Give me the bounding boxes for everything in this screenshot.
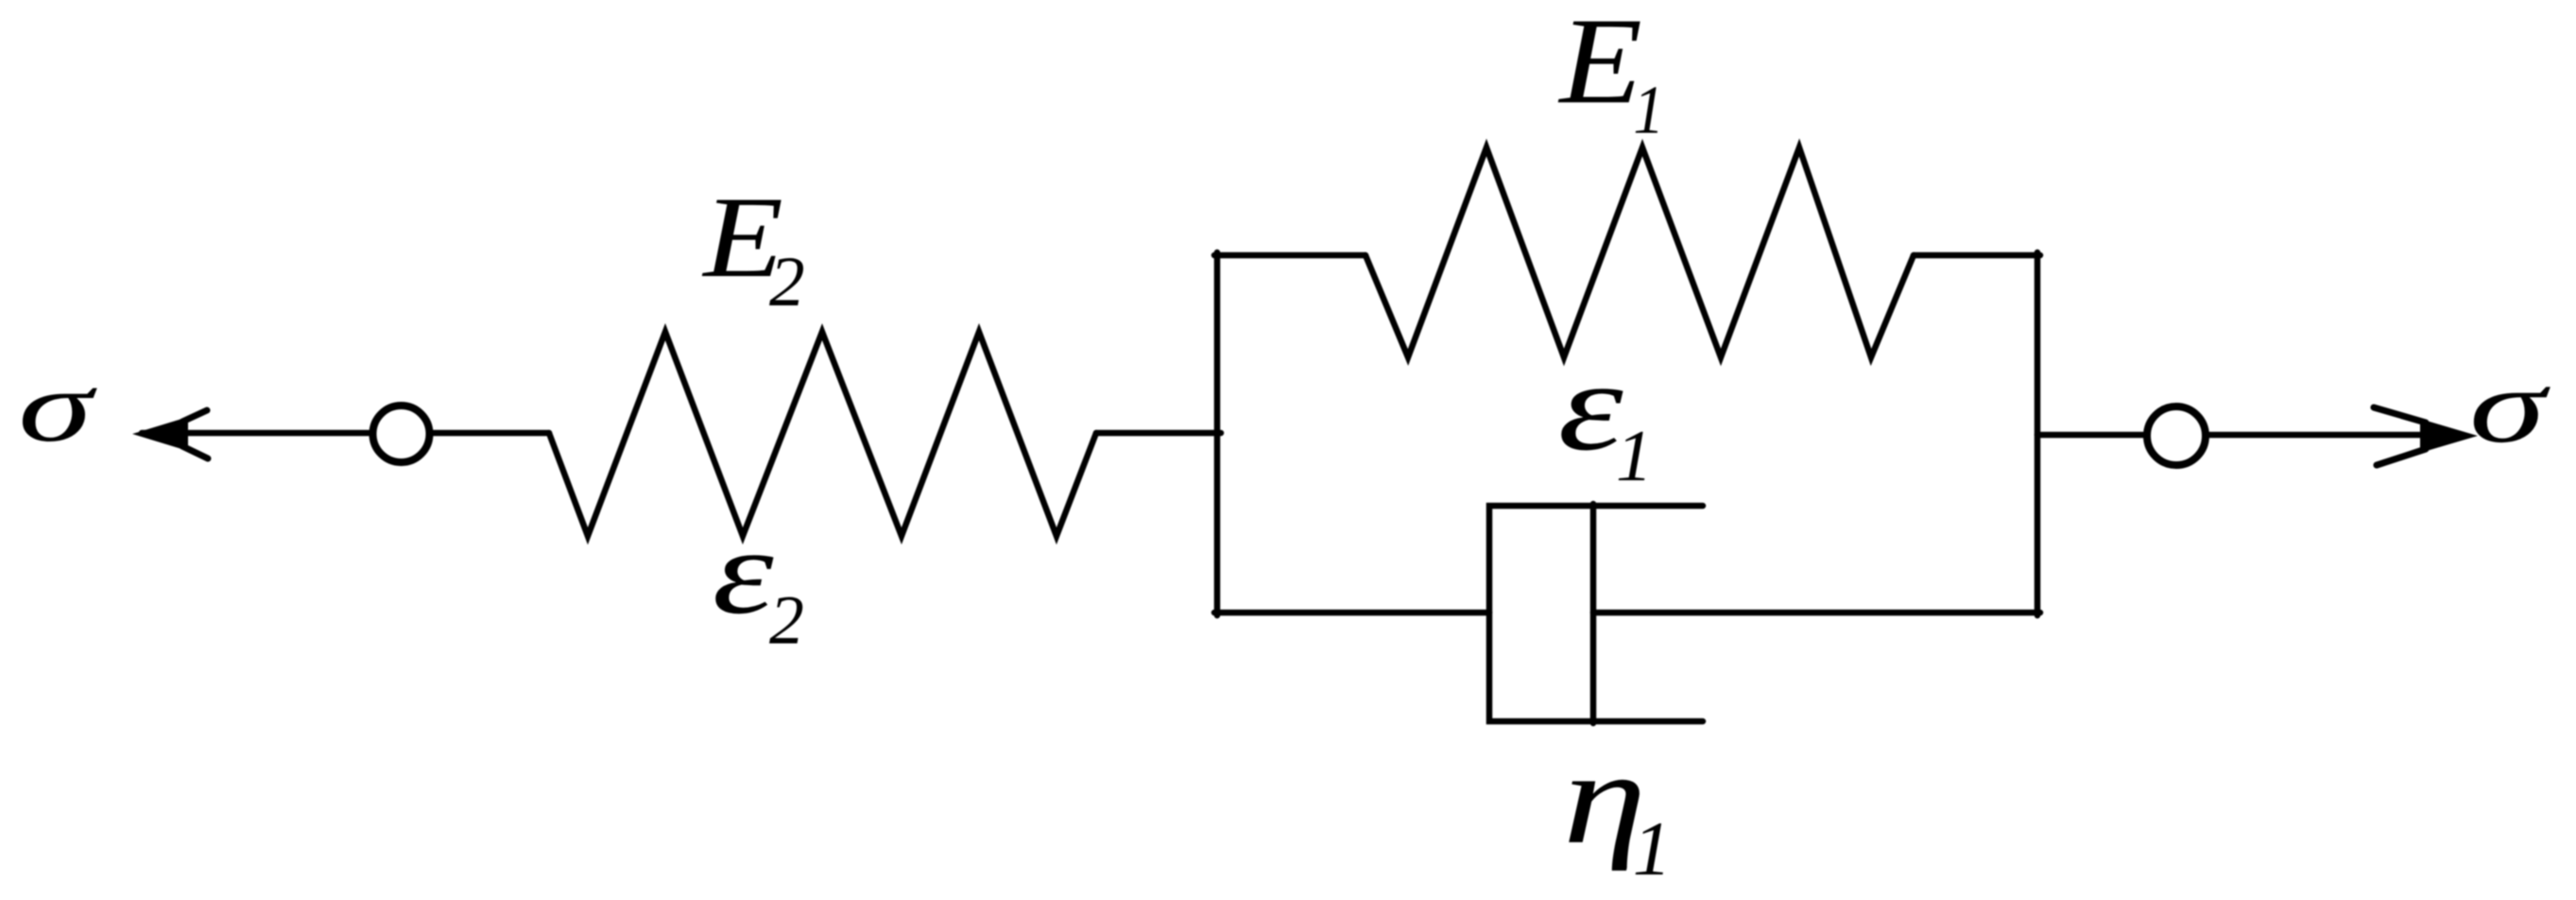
wire E2 to box (1096, 430, 1221, 437)
box top rail left segment (1214, 252, 1365, 259)
svg-text:1: 1 (1616, 415, 1653, 496)
svg-text:2: 2 (769, 243, 805, 321)
label eta1 (1563, 724, 1646, 872)
terminal circle right (2147, 407, 2206, 465)
spring E2 (549, 332, 1096, 536)
label E1 subscript 1 (1633, 72, 1664, 148)
label E1 (1557, 0, 1642, 130)
label epsilon2 (713, 505, 775, 640)
label epsilon2 subscript 2 (769, 581, 804, 659)
right arrowhead (2374, 407, 2478, 465)
svg-text:1: 1 (1633, 72, 1664, 148)
box top rail right segment (1914, 252, 2040, 259)
label eta1 subscript 1 (1633, 805, 1672, 891)
label sigma right (2469, 348, 2550, 465)
box right edge (node) (2035, 252, 2041, 615)
label epsilon1 subscript 1 (1616, 415, 1653, 496)
svg-text:ε: ε (713, 505, 775, 640)
dashpot piston plate (1590, 504, 1597, 723)
svg-text:E: E (1557, 0, 1642, 130)
svg-text:2: 2 (769, 581, 804, 659)
label sigma left (18, 351, 97, 463)
svg-text:ε: ε (1558, 335, 1623, 476)
svg-text:σ: σ (2469, 348, 2550, 465)
wire right shaft (2037, 432, 2457, 439)
dashpot eta1 cylinder (1489, 506, 1703, 721)
box left edge (node) (1214, 252, 1221, 615)
spring E1 (1365, 147, 1914, 357)
svg-text:1: 1 (1633, 805, 1672, 891)
terminal circle left (373, 406, 430, 462)
dashpot piston rod to box right edge (1593, 610, 2040, 616)
label epsilon1 (1558, 335, 1623, 476)
wire left shaft (142, 430, 549, 437)
svg-text:σ: σ (18, 351, 97, 463)
box bottom rail left segment (1214, 610, 1489, 616)
label E2 subscript 2 (769, 243, 805, 321)
label E2 (701, 173, 783, 302)
left arrowhead (132, 410, 208, 459)
